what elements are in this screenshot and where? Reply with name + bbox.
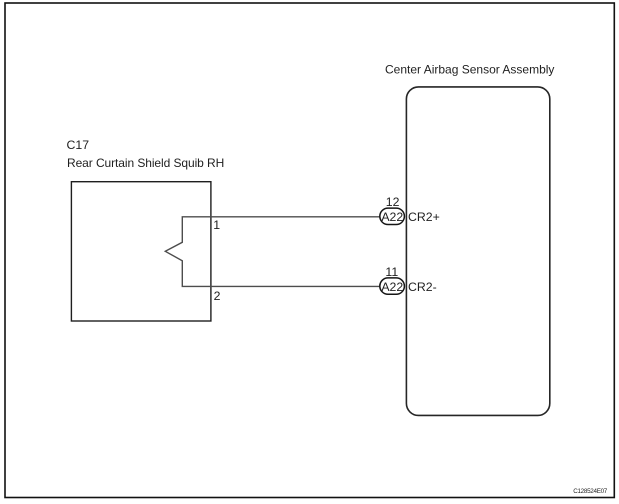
svg-text:A22: A22 — [381, 210, 403, 224]
ECU box: center airbag sensor assembly — [406, 87, 549, 416]
svg-text:Center Airbag Sensor Assembly: Center Airbag Sensor Assembly — [385, 62, 554, 76]
svg-text:CR2+: CR2+ — [408, 210, 440, 224]
svg-text:1: 1 — [213, 218, 220, 232]
connector oval A22 pin 12 — [380, 208, 405, 224]
connector box C17 — [71, 182, 211, 321]
svg-text:A22: A22 — [381, 280, 403, 294]
svg-text:C128524E07: C128524E07 — [573, 488, 608, 495]
svg-text:C17: C17 — [67, 138, 90, 152]
svg-text:2: 2 — [214, 289, 221, 303]
svg-text:Rear Curtain Shield Squib RH: Rear Curtain Shield Squib RH — [67, 156, 224, 170]
svg-text:12: 12 — [386, 195, 400, 209]
squib element and wires CR2+ / CR2- — [165, 217, 384, 287]
connector oval A22 pin 11 — [380, 278, 405, 294]
svg-text:11: 11 — [385, 265, 398, 279]
svg-text:CR2-: CR2- — [408, 280, 437, 294]
